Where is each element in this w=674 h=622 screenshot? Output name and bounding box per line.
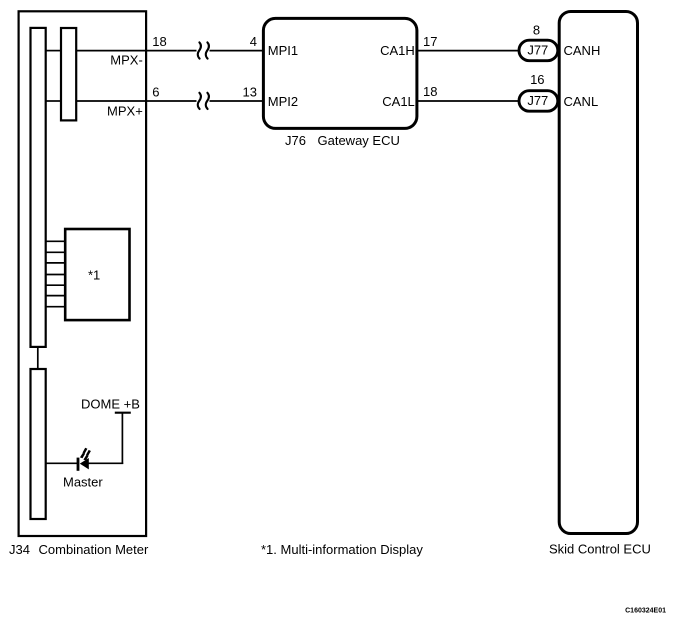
pin label MPI2 — [268, 94, 298, 109]
svg-text:MPX+: MPX+ — [107, 103, 143, 118]
LED emission arrows — [80, 448, 91, 461]
label Master — [63, 474, 103, 489]
wire CA1H to J77 — [417, 50, 518, 52]
pin 18 (meter MPX-) — [152, 34, 166, 49]
svg-text:6: 6 — [152, 85, 159, 100]
break symbol on MPX- wire — [198, 42, 209, 58]
label Skid Control ECU — [549, 541, 651, 556]
pin 17 (gateway CA1H) — [423, 34, 437, 49]
wire MPX+ (meter pin 6 to gateway pin 13) — [46, 100, 263, 102]
connector bar P1 (upper tall bar in meter) — [31, 28, 46, 347]
wire MPX- (meter pin 18 to gateway pin 4) — [46, 50, 263, 52]
svg-text:8: 8 — [533, 23, 540, 38]
pin 18 (gateway CA1L) — [423, 84, 437, 99]
svg-text:Skid Control ECU: Skid Control ECU — [549, 541, 651, 556]
svg-text:MPX-: MPX- — [110, 53, 143, 68]
label MPX- — [110, 53, 143, 68]
pin label CANH — [564, 43, 601, 58]
pin 16 (skid CANL) — [530, 72, 544, 87]
power terminal DOME +B — [81, 397, 140, 413]
wire DOME +B to LED — [88, 413, 123, 464]
svg-text:MPI1: MPI1 — [268, 43, 298, 58]
multi-information display box *1 — [65, 229, 129, 320]
note *1. Multi-information Display — [261, 542, 423, 557]
label MPX+ — [107, 103, 143, 118]
svg-text:13: 13 — [243, 85, 257, 100]
svg-text:MPI2: MPI2 — [268, 94, 298, 109]
figure code C160324E01 — [625, 608, 666, 615]
svg-text:Master: Master — [63, 474, 103, 489]
connector bar P2 (short bar in meter) — [61, 28, 76, 120]
connector J77 (CANL) — [519, 91, 558, 112]
LED Master (diode symbol) — [77, 458, 89, 471]
svg-text:CANL: CANL — [564, 94, 599, 109]
pin label CANL — [564, 94, 599, 109]
pin label CA1H — [380, 43, 415, 58]
svg-text:18: 18 — [423, 84, 437, 99]
svg-text:17: 17 — [423, 34, 437, 49]
connector bar P3 (lower bar in meter) — [31, 369, 46, 519]
wire bar P1 to bar P3 — [37, 347, 39, 369]
svg-text:*1: *1 — [88, 268, 100, 283]
pin label MPI1 — [268, 43, 298, 58]
svg-text:J77: J77 — [527, 43, 548, 58]
svg-text:J34: J34 — [9, 542, 30, 557]
svg-text:CA1L: CA1L — [382, 94, 415, 109]
svg-text:DOME +B: DOME +B — [81, 397, 140, 412]
ECU box J76 Gateway ECU — [263, 18, 417, 128]
svg-text:16: 16 — [530, 72, 544, 87]
svg-text:J76: J76 — [285, 133, 306, 148]
wire CA1L to J77 — [417, 100, 518, 102]
label J34 Combination Meter — [9, 542, 149, 557]
svg-text:*1. Multi-information Display: *1. Multi-information Display — [261, 542, 423, 557]
svg-text:Combination Meter: Combination Meter — [39, 542, 149, 557]
svg-text:18: 18 — [152, 34, 166, 49]
label J76 Gateway ECU — [285, 133, 400, 148]
pin label CA1L — [382, 94, 415, 109]
break symbol on MPX+ wire — [198, 93, 209, 109]
pin 6 (meter MPX+) — [152, 85, 159, 100]
svg-text:Gateway ECU: Gateway ECU — [318, 133, 400, 148]
wire LED to bar P3 — [46, 462, 78, 464]
ECU box Skid Control ECU — [559, 12, 637, 534]
svg-text:J77: J77 — [527, 93, 548, 108]
ECU box J34 Combination Meter — [19, 11, 147, 536]
svg-text:CANH: CANH — [564, 43, 601, 58]
svg-text:CA1H: CA1H — [380, 43, 415, 58]
svg-text:C160324E01: C160324E01 — [625, 608, 666, 615]
pin 13 (gateway MPI2) — [243, 85, 257, 100]
pin 8 (skid CANH) — [533, 23, 540, 38]
pin 4 (gateway MPI1) — [250, 34, 257, 49]
ribbon wires bar P1 to display box (7 rungs) — [46, 241, 65, 306]
svg-text:4: 4 — [250, 34, 257, 49]
connector J77 (CANH) — [519, 40, 558, 61]
